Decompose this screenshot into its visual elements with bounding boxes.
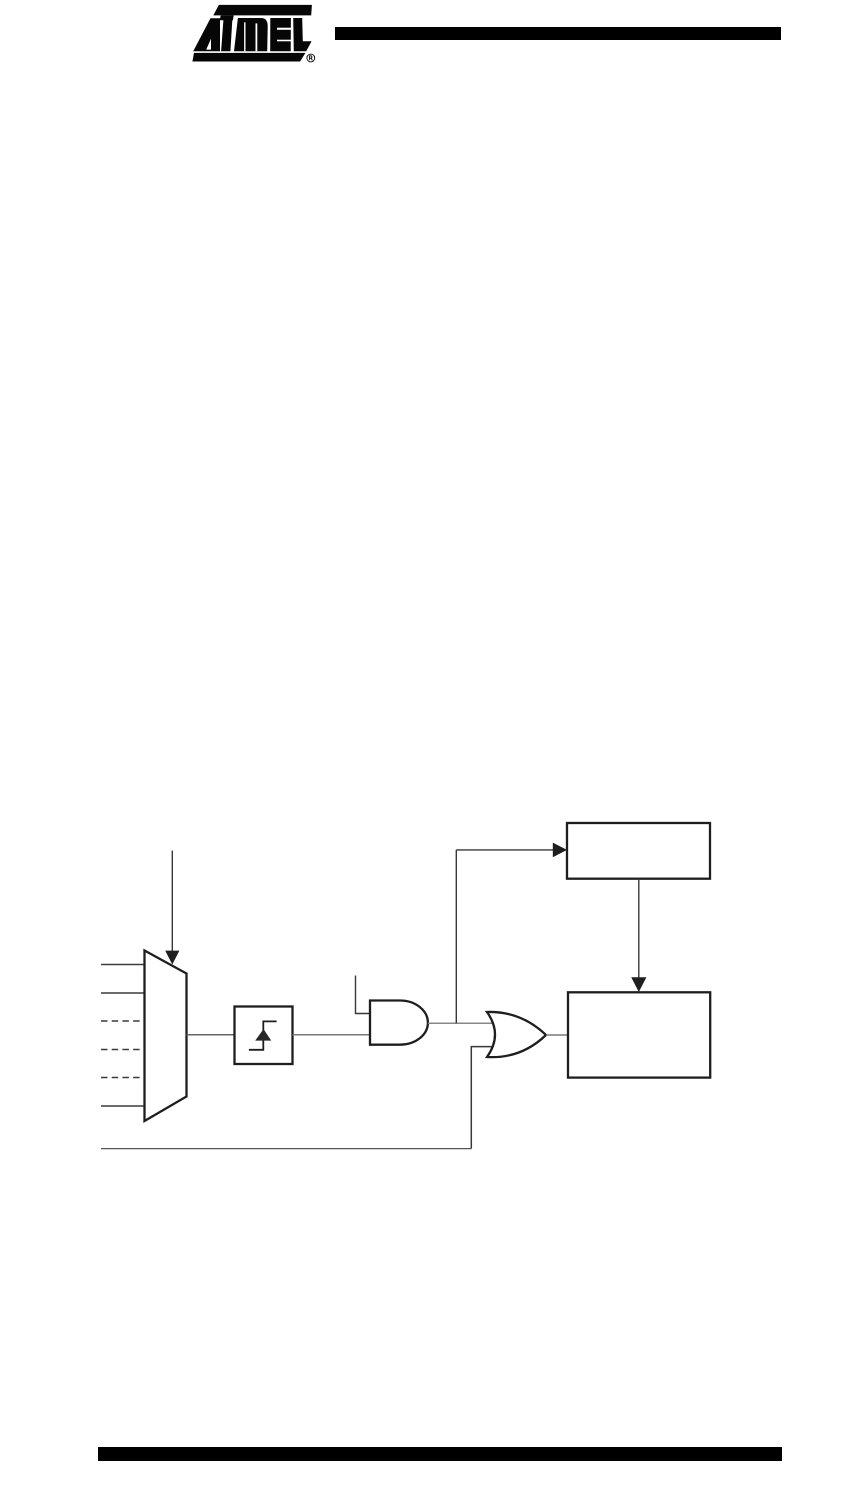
registered trademark symbol [307, 54, 315, 62]
wire: AND gate output [428, 1022, 492, 1024]
wire: mux select arrow line [171, 851, 173, 953]
wire: OR gate output to bottom register [546, 1034, 568, 1036]
edge detector arrow [255, 1029, 271, 1041]
figure: timer/counter external clock logic diagram [0, 815, 851, 1160]
wire: edge detector to AND gate [293, 1034, 371, 1036]
bottom register box [568, 992, 710, 1077]
wire: mux input line 3 (dashed) [101, 1020, 144, 1022]
logo letter A [193, 18, 220, 51]
header rule bar [335, 27, 781, 41]
logo letter L [293, 18, 311, 51]
wire: mux input line 2 [101, 992, 144, 994]
wire: mux input line 1 [101, 964, 144, 966]
arrowhead into top register [553, 843, 567, 858]
wire: mux output to edge detector [187, 1034, 235, 1036]
multiplexer [145, 951, 187, 1122]
top register box [567, 823, 710, 879]
AND gate [370, 1001, 428, 1045]
wire: mux input line 6 [101, 1105, 144, 1107]
edge detector box [235, 1007, 293, 1065]
wire: AND gate upper input stub [356, 976, 371, 1014]
wire: horizontal arrow line to top register [456, 849, 554, 851]
wire: mux input line 5 (dashed) [101, 1077, 144, 1079]
logo top bar [213, 5, 312, 16]
arrowhead into multiplexer [165, 951, 179, 965]
wire: long feedback line at bottom [101, 1148, 471, 1150]
logo letter T [220, 15, 234, 51]
OR gate [487, 1012, 546, 1057]
edge detector rising-edge symbol [249, 1021, 277, 1049]
logo letter E [270, 18, 291, 51]
wire: mux input line 4 (dashed) [101, 1049, 144, 1051]
wire: branch up from AND output [455, 850, 457, 1023]
Atmel logo [188, 2, 320, 66]
logo bottom bar [192, 53, 305, 62]
wire: arrow from top register to bottom register [638, 879, 640, 979]
wire: OR gate lower input [471, 1047, 495, 1149]
arrowhead into bottom register [631, 977, 646, 992]
footer rule bar [98, 1447, 782, 1461]
logo letter M [234, 18, 268, 51]
